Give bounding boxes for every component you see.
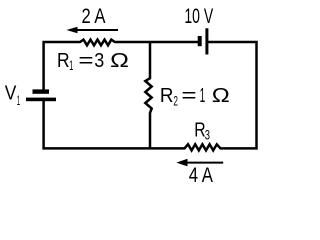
svg-text:2: 2	[173, 92, 178, 108]
svg-text:=: =	[78, 50, 93, 72]
svg-text:1: 1	[17, 92, 20, 108]
svg-text:4 A: 4 A	[189, 164, 213, 187]
svg-text:1: 1	[200, 85, 206, 107]
svg-text:2 A: 2 A	[82, 5, 106, 28]
svg-text:3: 3	[205, 127, 210, 143]
svg-text:=: =	[181, 85, 196, 107]
svg-text:Ω: Ω	[110, 50, 129, 72]
svg-text:3: 3	[94, 50, 104, 72]
svg-text:10 V: 10 V	[184, 4, 213, 28]
svg-text:Ω: Ω	[212, 85, 230, 107]
svg-text:R: R	[57, 50, 70, 72]
svg-text:V: V	[5, 83, 17, 105]
svg-text:R: R	[160, 85, 174, 107]
svg-text:1: 1	[69, 57, 73, 73]
